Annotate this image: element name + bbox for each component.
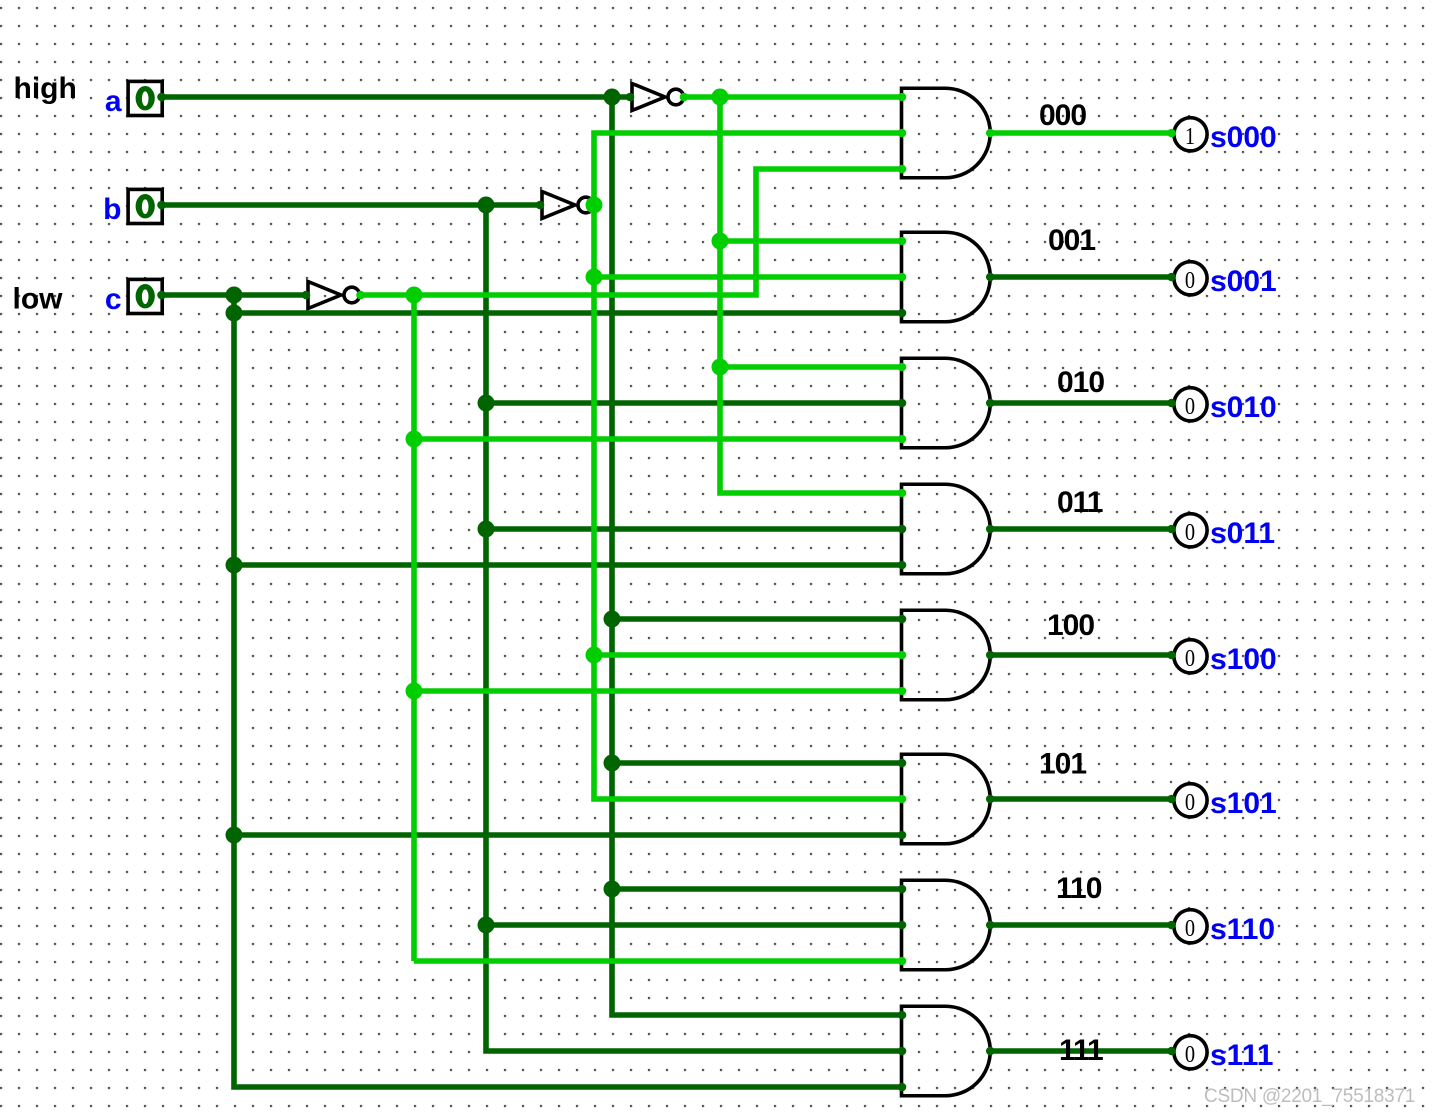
port at (990.25,925): [986, 921, 995, 930]
wire a vertical bus x=612 down to AND-111 top input: [612, 97, 902, 1015]
output pin s100 (circle, value 0): [1174, 640, 1207, 673]
port at (902,439): [898, 435, 907, 444]
wire a' to AND-010 top input: [720, 364, 902, 370]
junction at (486,925): [478, 917, 495, 934]
port at (902,403): [898, 399, 907, 408]
input pin c (square, value 0): [128, 279, 166, 313]
port at (161.5,97): [157, 93, 166, 102]
port at (902,835): [898, 831, 907, 840]
svg-text:001: 001: [1048, 224, 1095, 257]
port at (902,367): [898, 363, 907, 372]
svg-text:010: 010: [1057, 366, 1104, 399]
wire c vertical bus x=234 down to AND-111 bottom input: [234, 295, 902, 1087]
wire c: pin c to NOT3 input: [162, 292, 306, 298]
AND gate 100: [902, 610, 991, 700]
port at (990.25,403): [986, 399, 995, 408]
junction at (720,97): [712, 89, 729, 106]
wire b: pin b to NOT2 input: [162, 202, 540, 208]
wire b vertical bus x=486 down to AND-111 middle input: [486, 205, 902, 1051]
port at (630,97): [626, 93, 635, 102]
junction at (612,619): [604, 611, 621, 628]
svg-text:1: 1: [1185, 122, 1195, 149]
junction at (234,835): [226, 827, 243, 844]
junction at (414,691): [406, 683, 423, 700]
junction at (486,403): [478, 395, 495, 412]
port at (902,961): [898, 957, 907, 966]
wire AND-001 output to pin s001: [988, 274, 1173, 280]
junction at (594,277): [586, 269, 603, 286]
port at (1171.5,1051): [1167, 1047, 1176, 1056]
wire NOT3 output right then up to AND-000 bottom input: [360, 169, 902, 295]
port at (902,169): [898, 165, 907, 174]
svg-text:0: 0: [1185, 1040, 1195, 1067]
junction at (414,439): [406, 431, 423, 448]
output pin s110 (circle, value 0): [1174, 910, 1207, 943]
port at (902,889): [898, 885, 907, 894]
port at (990.25,277): [986, 273, 995, 282]
svg-text:0: 0: [1185, 788, 1195, 815]
svg-text:low: low: [13, 283, 64, 316]
port at (902,565): [898, 561, 907, 570]
port at (1171.5,529): [1167, 525, 1176, 534]
junction at (234,565): [226, 557, 243, 574]
port at (306,295): [302, 291, 311, 300]
port at (360.5,295): [356, 291, 365, 300]
wire a: pin a to NOT1 input: [162, 94, 630, 100]
AND gate 110: [902, 880, 991, 970]
wire a to AND-110 top input: [612, 886, 902, 892]
wire AND-011 output to pin s011: [988, 526, 1173, 532]
output pin s000 (circle, value 1): [1174, 118, 1207, 151]
AND gate 000: [902, 88, 991, 178]
svg-text:s000: s000: [1210, 121, 1277, 154]
wire AND-111 output to pin s111: [988, 1048, 1173, 1054]
port at (161.5,295): [157, 291, 166, 300]
svg-text:0: 0: [1185, 266, 1195, 293]
port at (990.25,799): [986, 795, 995, 804]
wire b' to AND-001 middle input: [594, 274, 902, 280]
junction at (486,205): [478, 197, 495, 214]
junction at (234,295): [226, 287, 243, 304]
wire b' to AND-100 middle input: [594, 652, 902, 658]
svg-text:011: 011: [1057, 486, 1103, 519]
junction at (612,763): [604, 755, 621, 772]
wire AND-100 output to pin s100: [988, 652, 1173, 658]
svg-text:s111: s111: [1210, 1039, 1273, 1072]
wire c' vertical bus x=414: [411, 295, 417, 961]
NOT3 (inverter on c): [308, 282, 360, 309]
port at (902,763): [898, 759, 907, 768]
port at (902,691): [898, 687, 907, 696]
output pin s101 (circle, value 0): [1174, 784, 1207, 817]
AND gate 011: [902, 484, 991, 574]
svg-text:a: a: [105, 85, 122, 118]
svg-text:0: 0: [1185, 914, 1195, 941]
wire c to AND-011 bottom input: [234, 562, 902, 568]
wire c' to AND-010 bottom input: [414, 436, 902, 442]
wire AND-110 output to pin s110: [988, 922, 1173, 928]
svg-text:000: 000: [1039, 99, 1086, 132]
svg-text:c: c: [105, 283, 122, 316]
output pin s011 (circle, value 0): [1174, 514, 1207, 547]
wire c' to AND-100 bottom input: [414, 688, 902, 694]
wire b to AND-110 middle input: [486, 922, 902, 928]
port at (1171.5,655): [1167, 651, 1176, 660]
svg-text:b: b: [103, 193, 121, 226]
port at (990.25,133): [986, 129, 995, 138]
svg-text:s100: s100: [1210, 643, 1277, 676]
port at (902,925): [898, 921, 907, 930]
AND gate 010: [902, 358, 991, 448]
wire a' to AND-001 top input: [720, 238, 902, 244]
svg-text:s001: s001: [1210, 265, 1277, 298]
wire b to AND-011 middle input: [486, 526, 902, 532]
port at (902,655): [898, 651, 907, 660]
svg-text:s010: s010: [1210, 391, 1277, 424]
svg-text:0: 0: [1185, 518, 1195, 545]
port at (902,619): [898, 615, 907, 624]
wire AND-010 output to pin s010: [988, 400, 1173, 406]
wire a' vertical bus x=720 down to AND-011 top input: [720, 97, 902, 493]
port at (902,313): [898, 309, 907, 318]
port at (1171.5,277): [1167, 273, 1176, 282]
port at (990.25,1051): [986, 1047, 995, 1056]
svg-text:CSDN @2201_75518371: CSDN @2201_75518371: [1204, 1086, 1415, 1107]
port at (902,241): [898, 237, 907, 246]
AND gate 101: [902, 754, 991, 844]
port at (990.25,655): [986, 651, 995, 660]
junction at (486,529): [478, 521, 495, 538]
port at (990.25,529): [986, 525, 995, 534]
junction at (414,295): [406, 287, 423, 304]
wire b' bus: AND-000 middle, vertical x=594, AND-101 middle: [594, 133, 902, 799]
port at (902,493): [898, 489, 907, 498]
NOT1 (inverter on a): [632, 84, 684, 111]
wire AND-000 output to pin s000: [988, 130, 1173, 136]
NOT2 (inverter on b): [542, 192, 594, 219]
wire a to AND-100 top input: [612, 616, 902, 622]
port at (902,1051): [898, 1047, 907, 1056]
svg-text:111: 111: [1059, 1034, 1103, 1067]
svg-text:0: 0: [1185, 644, 1195, 671]
port at (902,799): [898, 795, 907, 804]
port at (684,97): [680, 93, 689, 102]
port at (902,133): [898, 129, 907, 138]
AND gate 111: [902, 1006, 991, 1096]
svg-text:101: 101: [1039, 748, 1086, 781]
port at (902,97): [898, 93, 907, 102]
svg-text:s011: s011: [1210, 517, 1275, 550]
wire c to AND-101 bottom input: [234, 832, 902, 838]
svg-text:110: 110: [1056, 872, 1102, 905]
junction at (594,655): [586, 647, 603, 664]
port at (902,1087): [898, 1083, 907, 1092]
output pin s111 (circle, value 0): [1174, 1036, 1207, 1069]
wire AND-101 output to pin s101: [988, 796, 1173, 802]
junction at (720,241): [712, 233, 729, 250]
port at (161.5,205): [157, 201, 166, 210]
svg-text:s101: s101: [1210, 787, 1277, 820]
port at (902,1015): [898, 1011, 907, 1020]
svg-text:high: high: [14, 72, 77, 105]
svg-text:0: 0: [1185, 392, 1195, 419]
wire NOT1 output to AND-000 top input: [684, 94, 902, 100]
wire a to AND-101 top input: [612, 760, 902, 766]
wire NOT-c output to AND-110 bottom input: [414, 958, 902, 964]
port at (902,277): [898, 273, 907, 282]
svg-text:100: 100: [1047, 609, 1094, 642]
junction at (612,97): [604, 89, 621, 106]
output pin s010 (circle, value 0): [1174, 388, 1207, 421]
port at (902,529): [898, 525, 907, 534]
svg-text:s110: s110: [1210, 913, 1275, 946]
wire c to AND-001 bottom input: [234, 310, 902, 316]
input pin a (square, value 0): [128, 81, 166, 115]
input pin b (square, value 0): [128, 189, 166, 223]
port at (540,205): [536, 201, 545, 210]
junction at (720,367): [712, 359, 729, 376]
port at (1171.5,403): [1167, 399, 1176, 408]
port at (1171.5,799): [1167, 795, 1176, 804]
AND gate 001: [902, 232, 991, 322]
port at (1171.5,133): [1167, 129, 1176, 138]
junction at (594,205): [586, 197, 603, 214]
wire b to AND-010 middle input: [486, 400, 902, 406]
junction at (612,889): [604, 881, 621, 898]
output pin s001 (circle, value 0): [1174, 262, 1207, 295]
junction at (234,313): [226, 305, 243, 322]
port at (1171.5,925): [1167, 921, 1176, 930]
